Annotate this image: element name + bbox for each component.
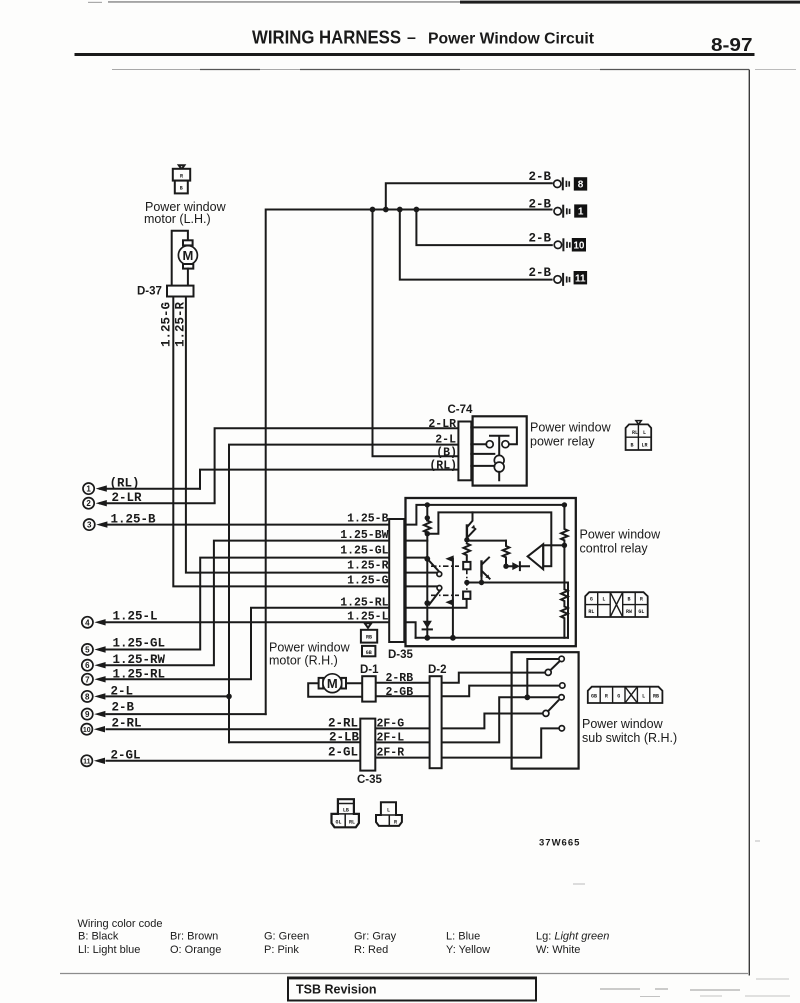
svg-text:1.25-L: 1.25-L	[113, 610, 158, 624]
svg-text:D-35: D-35	[388, 649, 414, 661]
svg-text:1.25-G: 1.25-G	[160, 302, 174, 347]
svg-text:1.25-R: 1.25-R	[347, 560, 389, 573]
svg-text:2-RB: 2-RB	[386, 672, 414, 685]
svg-text:4: 4	[85, 618, 90, 627]
svg-text:G: G	[590, 597, 593, 603]
svg-text:B: B	[627, 597, 630, 603]
svg-text:TSB Revision: TSB Revision	[296, 983, 377, 997]
svg-text:1.25-GL: 1.25-GL	[113, 637, 166, 651]
svg-text:Power window: Power window	[269, 641, 351, 655]
svg-text:motor (R.H.): motor (R.H.)	[269, 654, 338, 668]
svg-text:Power window: Power window	[582, 717, 664, 731]
svg-text:(B): (B)	[436, 447, 457, 460]
svg-text:motor (L.H.): motor (L.H.)	[144, 212, 211, 226]
svg-text:2: 2	[86, 499, 91, 508]
svg-text:W: White: W: White	[536, 944, 580, 956]
svg-text:2-B: 2-B	[112, 701, 135, 715]
svg-text:Wiring color code: Wiring color code	[78, 918, 163, 930]
svg-text:2F-L: 2F-L	[377, 732, 405, 745]
svg-text:–: –	[407, 30, 416, 47]
svg-text:1.25-BW: 1.25-BW	[340, 529, 388, 542]
svg-text:1.25-L: 1.25-L	[347, 611, 389, 624]
svg-text:B: Black: B: Black	[78, 931, 119, 943]
svg-text:Br: Brown: Br: Brown	[170, 931, 218, 943]
svg-text:RB: RB	[366, 635, 372, 641]
svg-text:LB: LB	[343, 808, 349, 814]
svg-text:2-LB: 2-LB	[329, 731, 360, 745]
svg-text:M: M	[182, 248, 193, 263]
svg-text:Lg: Light green: Lg: Light green	[536, 931, 609, 943]
svg-text:8: 8	[578, 180, 584, 191]
svg-text:2-B: 2-B	[528, 232, 551, 246]
svg-text:L: L	[642, 693, 645, 699]
svg-text:2-GB: 2-GB	[386, 686, 414, 699]
svg-text:2-GL: 2-GL	[111, 749, 141, 763]
svg-text:D-1: D-1	[360, 664, 379, 676]
svg-text:GL: GL	[638, 609, 644, 615]
svg-text:2F-R: 2F-R	[377, 747, 405, 760]
svg-text:R: R	[640, 597, 643, 603]
svg-text:WIRING HARNESS: WIRING HARNESS	[252, 27, 401, 48]
svg-text:2-L: 2-L	[435, 434, 456, 447]
svg-text:D-37: D-37	[137, 286, 162, 298]
svg-text:C-35: C-35	[357, 774, 383, 786]
svg-text:2-B: 2-B	[528, 266, 551, 280]
svg-text:37W665: 37W665	[539, 838, 580, 849]
svg-text:sub switch (R.H.): sub switch (R.H.)	[582, 731, 677, 745]
svg-text:10: 10	[573, 240, 585, 251]
svg-text:GL: GL	[335, 820, 341, 826]
svg-text:L: L	[602, 597, 605, 603]
svg-text:9: 9	[85, 710, 90, 719]
svg-text:control relay: control relay	[580, 542, 649, 556]
svg-text:Ll: Light blue: Ll: Light blue	[78, 944, 140, 956]
svg-text:Power window: Power window	[530, 421, 612, 435]
svg-text:RL: RL	[632, 430, 638, 436]
svg-text:O: Orange: O: Orange	[170, 944, 221, 956]
svg-text:11: 11	[83, 759, 91, 766]
svg-text:RL: RL	[349, 820, 355, 826]
svg-text:GB: GB	[591, 693, 597, 699]
svg-text:2F-G: 2F-G	[377, 718, 405, 731]
svg-text:RB: RB	[653, 693, 659, 699]
svg-text:2-L: 2-L	[111, 685, 134, 699]
svg-text:1.25-GL: 1.25-GL	[340, 545, 388, 558]
svg-text:1.25-RW: 1.25-RW	[113, 653, 166, 667]
svg-text:Power Window Circuit: Power Window Circuit	[428, 31, 595, 48]
svg-text:3: 3	[87, 521, 92, 530]
svg-text:Gr: Gray: Gr: Gray	[354, 931, 397, 943]
svg-text:B: B	[631, 443, 634, 449]
svg-text:G: G	[617, 693, 620, 699]
svg-text:C-74: C-74	[448, 404, 474, 416]
svg-text:1.25-B: 1.25-B	[347, 513, 389, 526]
svg-text:1: 1	[578, 207, 584, 218]
svg-text:L: L	[643, 430, 646, 436]
svg-text:2-B: 2-B	[528, 170, 551, 184]
svg-text:R: R	[605, 693, 608, 699]
svg-text:7: 7	[85, 675, 90, 684]
svg-text:RW: RW	[626, 609, 632, 615]
svg-text:Y: Yellow: Y: Yellow	[446, 944, 490, 956]
svg-text:1.25-B: 1.25-B	[111, 513, 157, 527]
svg-text:Power window: Power window	[580, 528, 662, 542]
svg-text:R: R	[394, 819, 397, 825]
svg-text:R: R	[180, 174, 183, 180]
svg-text:P: Pink: P: Pink	[264, 944, 299, 956]
svg-text:G: Green: G: Green	[264, 931, 309, 943]
svg-text:1.25-RL: 1.25-RL	[340, 597, 388, 610]
svg-text:RL: RL	[588, 609, 594, 615]
svg-text:GB: GB	[366, 650, 372, 656]
svg-text:B: B	[180, 186, 183, 192]
svg-text:LR: LR	[642, 443, 648, 449]
svg-text:(RL): (RL)	[429, 459, 457, 472]
svg-text:8: 8	[85, 692, 90, 701]
svg-text:2-B: 2-B	[528, 198, 551, 212]
svg-text:6: 6	[85, 661, 90, 670]
svg-text:D-2: D-2	[428, 664, 447, 676]
svg-text:8-97: 8-97	[711, 35, 753, 55]
svg-text:M: M	[327, 676, 338, 691]
svg-text:5: 5	[85, 646, 90, 655]
svg-text:R: Red: R: Red	[354, 944, 388, 956]
svg-text:1: 1	[86, 485, 91, 494]
svg-text:10: 10	[83, 727, 91, 734]
svg-text:L: L	[387, 808, 390, 814]
svg-text:2-RL: 2-RL	[328, 717, 358, 731]
svg-text:power relay: power relay	[530, 435, 595, 449]
svg-text:1.25-RL: 1.25-RL	[113, 668, 166, 682]
svg-text:2-GL: 2-GL	[328, 746, 358, 760]
svg-text:2-RL: 2-RL	[112, 717, 142, 731]
svg-text:2-LR: 2-LR	[428, 418, 456, 431]
svg-text:11: 11	[575, 273, 586, 284]
svg-text:L: Blue: L: Blue	[446, 931, 480, 943]
